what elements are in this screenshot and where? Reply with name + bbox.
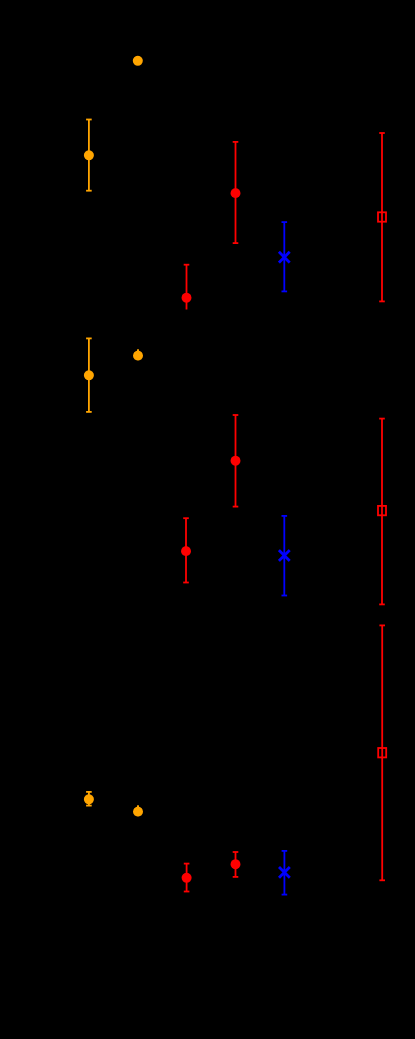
panel 1: error bar, red series 2 [233, 142, 239, 243]
panel 1: error bar (bottom clipped at axes edge), red series 1 [184, 265, 190, 310]
panel 2: error bar, blue x series [282, 516, 288, 596]
panel 3: error bar, blue x series [282, 851, 288, 895]
panel 3: orange circle marker, series 1 [84, 794, 94, 804]
panel 1: orange circle marker, series 1 [84, 150, 94, 160]
panel 3: error bar, red series 1 [184, 864, 190, 892]
panel 3: red circle marker, series 1 [182, 873, 192, 883]
panel 3: error bar, red series 2 [233, 852, 239, 877]
panel 1: error bar, red open-square series [379, 133, 385, 301]
panel 1: red circle marker, series 2 [231, 188, 241, 198]
panel 2: red circle marker, series 2 [231, 456, 241, 466]
panel 3: error bar, orange series 1 [86, 792, 92, 806]
panel 3: red open-square marker [378, 748, 386, 757]
panel 3: short error bar, orange series 2 [137, 805, 139, 812]
panel 2: red open-square marker [378, 506, 386, 515]
panel 2: error bar, orange series 1 [86, 338, 92, 412]
panel 2: orange circle marker, series 2 [133, 351, 143, 361]
panel 1: orange circle marker (no error bar), series 2 [133, 56, 143, 66]
panel 2: short error bar, orange series 2 [137, 349, 139, 356]
panel 3: orange circle marker, series 2 [133, 807, 143, 817]
panel 1: red open-square marker [378, 212, 386, 221]
panel 2: error bar, red series 1 [183, 518, 189, 582]
panel 3: red circle marker, series 2 [231, 859, 241, 869]
panel 2: red circle marker, series 1 [181, 546, 191, 556]
panel 3: blue x marker [279, 867, 290, 878]
panel 1: blue x marker [279, 252, 290, 263]
panel 1: error bar, blue x series [282, 222, 288, 291]
panel 2: orange circle marker, series 1 [84, 370, 94, 380]
panel 2: error bar, red open-square series [379, 419, 385, 605]
panel 1: red circle marker, series 1 [182, 293, 192, 303]
panel 3: error bar, red open-square series [379, 625, 385, 880]
panel 2: blue x marker [279, 550, 290, 561]
panel 1: error bar, orange series 1 [86, 120, 92, 191]
panel 2: error bar, red series 2 [233, 415, 239, 507]
